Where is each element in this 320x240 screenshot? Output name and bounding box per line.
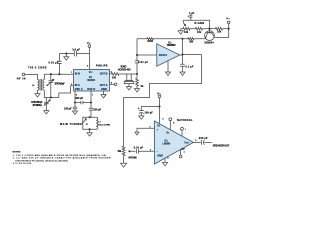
wire supply node left	[141, 106, 159, 108]
wire stub to ground	[65, 54, 67, 57]
svg-text:OUT A: OUT A	[100, 84, 108, 87]
svg-text:NATIONAL: NATIONAL	[177, 119, 193, 122]
node osc A	[74, 101, 76, 103]
wire row mid	[190, 28, 196, 30]
svg-text:GND: GND	[101, 88, 107, 91]
ground (100uF)	[139, 116, 144, 119]
svg-text:10k: 10k	[197, 31, 202, 34]
capacitor 100pF	[89, 108, 102, 117]
resistor 5k to ground	[136, 74, 144, 89]
terminal V+ (LM386)	[157, 92, 161, 106]
terminal pin 8 gain	[169, 118, 175, 130]
svg-text:V+: V+	[157, 92, 161, 95]
wire to speaker out	[204, 141, 212, 143]
wire OSC B pin down	[90, 91, 92, 108]
node ZN414 input	[136, 54, 138, 56]
wire NE602 GND pin to ground	[103, 91, 105, 95]
wire input to ZN414	[137, 54, 157, 56]
ground (pin 4)	[162, 162, 167, 165]
wire tank bottom rail	[44, 90, 59, 97]
svg-text:0.1 µF: 0.1 µF	[185, 65, 193, 68]
op-amp U2 ZN414	[157, 41, 180, 66]
capacitor 250uF output	[199, 137, 208, 145]
capacitor 0.01uF (V+ rail to tank top)	[48, 54, 61, 75]
op-amp U1 NE602 mixer box	[71, 70, 113, 97]
wire V+ terminal to rail corner	[88, 47, 90, 53]
wire IF base row	[181, 28, 183, 30]
svg-text:SPEAKER OUT: SPEAKER OUT	[213, 144, 230, 147]
svg-text:HCFM2-455: HCFM2-455	[118, 68, 131, 71]
wire pin 4 to ground	[165, 156, 169, 162]
resistor 100	[111, 73, 119, 80]
capacitor 300pF series link	[75, 97, 91, 104]
capacitor 0.01uF AF coupling	[134, 147, 144, 154]
ground (AF pot)	[121, 163, 127, 167]
svg-text:ZN414: ZN414	[159, 54, 168, 57]
wire wiper rail	[183, 20, 209, 28]
svg-text:5.6 µF: 5.6 µF	[72, 48, 80, 51]
wire supply node to pin 6	[159, 107, 161, 124]
terminal V+ (NE602)	[87, 42, 91, 47]
svg-text:0.01 µF: 0.01 µF	[48, 62, 58, 65]
svg-text:1 µF: 1 µF	[189, 12, 195, 15]
svg-text:PLESSEY: PLESSEY	[167, 44, 176, 47]
svg-text:T50-2 CORE: T50-2 CORE	[98, 124, 111, 126]
svg-text:AF GAIN: AF GAIN	[128, 157, 137, 160]
ceramic filter TOKO 455kHz	[118, 65, 134, 86]
node L1 top	[89, 116, 91, 118]
svg-text:PHILIPS: PHILIPS	[96, 65, 108, 68]
ground (transformer primary)	[35, 94, 40, 97]
svg-text:1. T50-2 CORES ARE AVAILABLE F: 1. T50-2 CORES ARE AVAILABLE FROM MICROM…	[13, 154, 108, 157]
ground (IF divider)	[178, 29, 183, 35]
potentiometer AF GAIN 10k	[117, 146, 136, 163]
wire row to base node	[203, 28, 216, 30]
node ZN414 output	[181, 53, 183, 55]
node feedback rail / emitter	[181, 38, 183, 40]
wire tank bottom to NE602 pin 2	[59, 86, 74, 98]
capacitor 0.1uF output bypass	[180, 55, 194, 73]
capacitor 0.01uF coupling to ZN414	[135, 55, 149, 74]
node LM386 supply	[158, 105, 160, 107]
svg-text:LM386: LM386	[162, 143, 170, 146]
wire L1 to ground	[89, 129, 91, 132]
wire OSC A pin down	[74, 91, 76, 107]
svg-text:ELECTRONICS P/O (23037), US (8: ELECTRONICS P/O (23037), US (817) 44-176…	[15, 160, 69, 162]
potentiometer IF GAIN 10k	[183, 20, 190, 34]
svg-text:(TUNING): (TUNING)	[33, 104, 42, 107]
svg-text:100k: 100k	[147, 40, 153, 43]
svg-text:100 µF: 100 µF	[144, 111, 153, 114]
svg-text:10k: 10k	[184, 31, 189, 34]
terminal pin 1 gain	[181, 127, 187, 136]
svg-text:5t: 5t	[32, 84, 34, 87]
capacitor 100pF (left shunt)	[64, 107, 77, 111]
svg-text:OSC B: OSC B	[87, 88, 95, 91]
svg-text:100 pF: 100 pF	[64, 108, 72, 111]
ground (V+ rail bypass)	[64, 57, 69, 60]
svg-text:IF GAIN: IF GAIN	[195, 22, 205, 25]
node tank top / varcap C1	[50, 73, 52, 75]
svg-text:0.01 µF: 0.01 µF	[134, 147, 144, 150]
svg-text:0.01 µF: 0.01 µF	[138, 61, 148, 64]
svg-text:300 pF: 300 pF	[75, 97, 83, 100]
capacitor 100uF supply bypass	[138, 107, 154, 116]
terminal RF IN	[17, 73, 26, 80]
ground (filter)	[126, 87, 131, 90]
node V+ right	[228, 28, 230, 30]
transformer T1 T50-2 CORE	[28, 66, 48, 90]
node L1 bottom	[89, 128, 91, 130]
ground (L1)	[87, 133, 92, 136]
resistor 160 (emitter)	[183, 38, 206, 44]
wire OUT B to resistor	[110, 73, 112, 75]
svg-text:250 µF: 250 µF	[199, 137, 208, 140]
svg-text:IN B: IN B	[75, 73, 80, 76]
terminal pin 7 bypass	[179, 150, 185, 158]
svg-text:V+: V+	[226, 17, 230, 20]
op-amp U3 LM386 audio amp	[154, 121, 193, 164]
ground (ZN414)	[165, 72, 170, 75]
svg-text:3. V+ 4.5 TO 6.0V: 3. V+ 4.5 TO 6.0V	[13, 163, 32, 165]
transistor Q1 2N3904	[204, 29, 229, 45]
variable capacitor C2 10 TO 365 pF (TUNING)	[31, 98, 50, 111]
svg-text:NE602: NE602	[87, 79, 95, 82]
svg-text:OSC A: OSC A	[75, 88, 83, 91]
wire V+ rail to pin 8	[88, 54, 90, 70]
wire output to AF return	[183, 54, 202, 56]
ground (0.1uF)	[180, 72, 185, 75]
terminal OUT A open circle	[110, 83, 117, 86]
svg-text:T50-2 CORE: T50-2 CORE	[28, 66, 47, 69]
svg-text:10k: 10k	[117, 150, 121, 153]
wire pin 3 to ground	[137, 127, 154, 133]
svg-text:2. IC2 AND 365 pF VARIABLE CAP: 2. IC2 AND 365 pF VARIABLE CAPACITOR AVA…	[13, 157, 111, 160]
wire row to V+ node	[223, 28, 229, 30]
svg-text:NOTES:: NOTES:	[13, 152, 22, 154]
wire output pin 5	[193, 140, 201, 142]
node base	[208, 28, 210, 30]
svg-text:RF IN: RF IN	[17, 77, 26, 80]
wire feedback right vertical	[182, 39, 184, 55]
svg-text:2N3904: 2N3904	[204, 41, 214, 44]
node osc B	[90, 101, 92, 103]
svg-text:10k: 10k	[217, 31, 222, 34]
ground (pin 3)	[135, 132, 139, 135]
svg-text:160: 160	[189, 40, 193, 43]
svg-text:100 pF: 100 pF	[93, 108, 101, 111]
wire cap to LM386 pin 2	[138, 150, 154, 152]
node tank top / 0.01uF drop	[58, 73, 60, 75]
wire secondary top to tank rail	[43, 74, 45, 79]
svg-text:GND: GND	[157, 154, 163, 157]
variable capacitor C1 10 TO 180 pF	[48, 74, 66, 97]
resistor 10k (to V+)	[216, 27, 223, 33]
node filter output	[136, 73, 138, 75]
wire filter through	[119, 73, 137, 75]
resistor 100k feedback	[137, 38, 183, 43]
capacitor 1uF	[188, 12, 195, 20]
wire AF return path	[124, 55, 202, 147]
inductor L1 variable, T50-2 core	[81, 117, 110, 129]
svg-text:10 TO 180 pF: 10 TO 180 pF	[54, 82, 65, 85]
node V+ rail ground	[65, 52, 67, 54]
wire ZN414 output	[180, 54, 183, 56]
wire tank top rail	[44, 73, 73, 75]
svg-text:BP: BP	[181, 148, 185, 151]
wire RF IN to transformer primary	[25, 74, 38, 79]
svg-text:100: 100	[112, 76, 117, 79]
node tank bottom / varcap C1	[50, 96, 52, 98]
svg-text:MAIN TUNING: MAIN TUNING	[60, 123, 82, 126]
notes text block	[13, 152, 111, 166]
wire feedback left vertical	[136, 39, 138, 55]
ground (5k)	[134, 89, 139, 92]
svg-text:V+: V+	[87, 42, 91, 45]
ground (100pF left)	[72, 111, 77, 114]
ground (NE602)	[101, 95, 106, 98]
svg-text:OUT B: OUT B	[100, 73, 108, 76]
wire V+ rail	[59, 53, 89, 55]
terminal V+ (IF stage)	[226, 17, 230, 28]
wire ZN414 ground stub	[167, 61, 169, 72]
resistor 10k (base left)	[196, 27, 203, 34]
capacitor 5.6uF bypass	[72, 48, 80, 56]
svg-text:IN A: IN A	[75, 84, 80, 87]
wire primary to ground	[37, 90, 39, 94]
ground (varcap C2)	[44, 111, 49, 114]
